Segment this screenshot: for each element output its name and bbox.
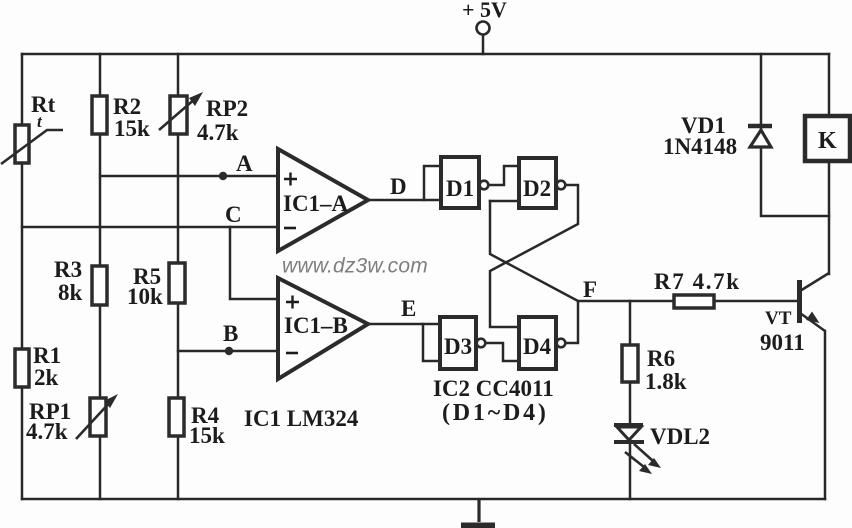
svg-text:R6: R6 [647, 346, 675, 371]
wire D1 output to D2 input [488, 166, 519, 185]
resistor R7 [674, 295, 714, 308]
svg-text:1N4148: 1N4148 [663, 134, 737, 159]
svg-text:D: D [390, 174, 407, 199]
potentiometer RP1 body [90, 398, 106, 436]
svg-text:C: C [225, 202, 242, 227]
resistor R5 [169, 263, 185, 303]
gate D2 box [519, 158, 556, 208]
svg-text:9011: 9011 [760, 330, 805, 355]
svg-text:15k: 15k [189, 423, 225, 448]
node A junction dot [219, 172, 227, 180]
wire op-amp A output D [368, 199, 441, 202]
svg-text:K: K [818, 128, 837, 154]
svg-text:D4: D4 [523, 334, 552, 359]
svg-text:2k: 2k [34, 365, 59, 390]
wire D3 lower input jog [423, 324, 440, 361]
relay K box [805, 116, 850, 161]
wire right vertical through relay K [828, 54, 831, 274]
svg-text:A: A [236, 151, 253, 176]
gate D1 output bubble [480, 181, 489, 190]
gate D4 box [519, 317, 556, 369]
svg-text:D3: D3 [444, 334, 472, 359]
wire node A horizontal [100, 175, 278, 178]
op-amp U1B plus input marker [286, 296, 299, 309]
wire second vertical branch (R2/R3/RP1) [99, 54, 102, 499]
svg-text:4.7k: 4.7k [197, 120, 239, 145]
svg-text:8k: 8k [58, 280, 83, 305]
transistor emitter lead [800, 313, 825, 331]
potentiometer RP1 arrow [76, 394, 118, 439]
wire D2 output feedback to D4 input [490, 185, 578, 327]
LED VDL2 [614, 425, 661, 474]
svg-text:IC1–B: IC1–B [284, 313, 348, 338]
+5V terminal circle [477, 22, 490, 35]
wire D3 output to D4 input [487, 343, 519, 361]
svg-text:D1: D1 [446, 176, 474, 201]
op-amp U1A minus input marker [284, 227, 296, 230]
wire VD1 branch [761, 54, 829, 216]
node B junction dot [225, 347, 233, 355]
wire +5V terminal stem [482, 36, 485, 54]
svg-text:Rt: Rt [31, 92, 56, 117]
svg-text:IC1 LM324: IC1 LM324 [244, 406, 359, 431]
op-amp U1A plus input marker [284, 173, 297, 186]
svg-text:VT: VT [765, 308, 792, 329]
svg-text:RP2: RP2 [206, 96, 248, 121]
resistor R3 [92, 266, 107, 305]
svg-text:(D1~D4): (D1~D4) [442, 400, 549, 426]
wire emitter vertical [824, 331, 827, 499]
wire node F horizontal to transistor base [578, 300, 798, 303]
wire op-amp B output E [368, 323, 440, 326]
svg-text:VDL2: VDL2 [650, 424, 710, 449]
potentiometer RP2 body [170, 96, 187, 134]
svg-text:IC2 CC4011: IC2 CC4011 [433, 376, 554, 401]
op-amp U1B triangle [278, 278, 368, 379]
svg-text:IC1–A: IC1–A [283, 191, 349, 216]
svg-text:4.7k: 4.7k [26, 419, 68, 444]
gate D2 output bubble [557, 181, 566, 190]
wire R6 / LED branch [629, 301, 632, 499]
transistor base bar [797, 280, 802, 323]
thermistor Rt strike mark [1, 130, 63, 164]
resistor Rt [15, 125, 29, 163]
svg-text:www.dz3w.com: www.dz3w.com [282, 255, 428, 278]
diode VD1 [748, 126, 772, 147]
resistor R6 [622, 345, 638, 382]
wire left vertical branch (Rt/R1) [21, 54, 24, 499]
wire node C horizontal [22, 226, 278, 229]
LED light arrow 2 [625, 452, 644, 467]
ground symbol [461, 499, 495, 526]
resistor R1 [15, 349, 29, 387]
svg-text:1.8k: 1.8k [645, 369, 687, 394]
wire bottom ground rail [22, 498, 825, 501]
svg-text:+ 5V: + 5V [462, 0, 507, 22]
potentiometer RP2 arrow [159, 92, 203, 130]
op-amp U1A triangle [278, 149, 368, 251]
svg-text:10k: 10k [127, 284, 163, 309]
gate D4 output bubble [557, 339, 566, 348]
op-amp U1B minus input marker [286, 352, 298, 355]
gate D3 output bubble [477, 339, 486, 348]
svg-text:E: E [401, 296, 416, 321]
wire node C branch to IC1-B plus input [230, 227, 278, 299]
gate D3 box [440, 317, 476, 369]
svg-text:D2: D2 [523, 176, 551, 201]
svg-text:B: B [223, 321, 238, 346]
wire D2 lower input [490, 200, 519, 203]
wire third vertical branch (RP2/R5/R4) [177, 54, 180, 499]
wire D4 output feedback to D2 input and node F [490, 201, 578, 343]
svg-text:R7 4.7k: R7 4.7k [654, 269, 741, 294]
wire top +5V rail [22, 53, 829, 56]
gate D1 box [441, 157, 479, 208]
resistor R4 [169, 398, 184, 436]
svg-text:15k: 15k [114, 116, 150, 141]
transistor Q1 (VT 9011) [800, 273, 830, 331]
wire D1 upper input jog [424, 166, 441, 200]
svg-text:R3: R3 [54, 257, 82, 282]
transistor collector lead [800, 273, 829, 291]
svg-text:F: F [583, 277, 597, 302]
resistor R2 [92, 96, 107, 134]
wire node B horizontal [178, 350, 278, 353]
LED light arrow 1 [634, 444, 653, 461]
transistor emitter arrowhead [806, 312, 820, 324]
